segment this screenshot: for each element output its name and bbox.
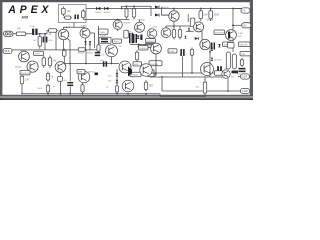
wire Q1 down xyxy=(63,40,65,50)
label box VAS upper xyxy=(146,39,156,43)
emitter resistor box xyxy=(228,43,235,49)
svg-text:1N4007: 1N4007 xyxy=(87,52,94,54)
resistor R12 xyxy=(178,28,181,40)
border frame bottom line xyxy=(0,95,253,96)
wire Q2 load drop xyxy=(94,33,96,48)
svg-text:47u: 47u xyxy=(64,80,67,82)
transistor Q1 diff pair xyxy=(58,29,68,39)
wire long feedback run y73 xyxy=(150,72,216,74)
node x70 bus xyxy=(69,63,71,65)
transistor Q9 xyxy=(200,39,210,49)
diode D8 xyxy=(137,44,139,47)
resistor R13 xyxy=(97,43,100,53)
terminal signal input xyxy=(4,31,13,36)
node Q18-fb xyxy=(155,72,157,74)
tall resistor body xyxy=(226,52,230,69)
wire Q4 emitter drop xyxy=(173,21,175,26)
svg-text:47u: 47u xyxy=(102,55,105,57)
resistor R7 xyxy=(15,27,28,35)
svg-text:10R: 10R xyxy=(203,14,208,17)
resistor R11 xyxy=(172,28,175,40)
resistor R25 xyxy=(190,48,193,58)
wire mid bus left xyxy=(130,44,160,46)
zener ZD1 xyxy=(116,73,118,76)
capacitor C7 xyxy=(95,52,101,56)
svg-text:10R: 10R xyxy=(149,85,154,88)
transistor Q6b xyxy=(147,29,157,39)
wire +V top rail xyxy=(86,8,242,10)
wire input signal xyxy=(13,33,33,35)
trimpot VR1 xyxy=(190,18,195,27)
capacitor C9 xyxy=(103,61,107,67)
svg-text:220R: 220R xyxy=(169,51,175,53)
wire gnd drop xyxy=(161,77,163,91)
node x86 bus xyxy=(85,63,87,65)
node R22-rail xyxy=(47,93,49,95)
svg-text:100u: 100u xyxy=(127,31,131,33)
transistor Q17 driver xyxy=(140,64,152,76)
resistor R19 xyxy=(145,73,157,76)
svg-text:1N4148: 1N4148 xyxy=(78,52,85,54)
label box above R24 xyxy=(139,46,149,50)
diode D6 xyxy=(89,41,91,44)
svg-text:MJE340: MJE340 xyxy=(150,64,159,66)
terminal +V supply xyxy=(241,8,250,13)
node C3 tap xyxy=(44,33,46,35)
wire Q8 drop xyxy=(111,57,113,64)
svg-text:AX6: AX6 xyxy=(21,15,29,19)
svg-text:OUT: OUT xyxy=(242,75,248,79)
wire R12 stub xyxy=(179,26,181,28)
resistor R2 xyxy=(63,16,72,19)
transistor Q12 xyxy=(27,61,38,72)
wire long output run y77 xyxy=(150,76,222,78)
wire Q4 collector xyxy=(173,9,175,11)
node zener-rail xyxy=(116,93,118,95)
diode D3 xyxy=(155,6,159,9)
wire R25 drop xyxy=(191,57,193,73)
node loop-R4 xyxy=(126,5,128,7)
svg-text:MJE350: MJE350 xyxy=(124,22,131,24)
wire D6 to bus xyxy=(89,44,91,50)
node Q1 gnd xyxy=(63,49,65,51)
bias network box xyxy=(59,5,87,23)
transistor Q6 xyxy=(135,22,145,32)
node input junction xyxy=(39,33,41,35)
svg-text:2SB649: 2SB649 xyxy=(138,20,145,22)
zener marks xyxy=(95,73,99,76)
label box Q14 value xyxy=(133,62,142,66)
node gnd tap xyxy=(161,76,163,78)
wire fb drop xyxy=(55,32,57,50)
APEX logo xyxy=(7,4,49,16)
capacitor C12 xyxy=(217,66,222,74)
node rail-Q4 xyxy=(173,8,175,10)
wire Q5 to Q9 xyxy=(201,31,203,39)
capacitor C4 xyxy=(129,33,133,44)
wire mid horizontal bus xyxy=(64,63,119,65)
diode D2 xyxy=(105,7,109,10)
svg-text:MJE340: MJE340 xyxy=(147,41,156,43)
transistor Q2 diff pair xyxy=(80,28,90,38)
resistor R18 xyxy=(144,80,153,92)
label box right upper xyxy=(240,52,251,56)
svg-text:BD139: BD139 xyxy=(89,72,95,74)
resistor R24 xyxy=(135,50,138,62)
label box Q9 xyxy=(214,30,225,35)
svg-text:100u: 100u xyxy=(134,28,138,30)
wire bias loop xyxy=(122,6,152,16)
wire Q2 down xyxy=(85,38,87,41)
dark bar right of D7 xyxy=(140,35,142,41)
capacitor C6 bypass xyxy=(101,38,108,42)
svg-text:MJE15: MJE15 xyxy=(131,75,139,77)
wire Q6 up xyxy=(139,20,141,23)
svg-text:+V: +V xyxy=(242,9,246,13)
label box bottom left xyxy=(20,71,30,75)
terminal feedback xyxy=(3,48,12,53)
diode D12 xyxy=(211,58,213,61)
resistor R17 xyxy=(116,84,119,94)
wire Q9 col xyxy=(209,45,211,53)
resistor R4 xyxy=(125,6,128,19)
svg-text:0R5 5W: 0R5 5W xyxy=(240,45,249,47)
svg-text:GND: GND xyxy=(242,89,248,93)
svg-text:1N4148: 1N4148 xyxy=(162,15,170,17)
transistor Q5 xyxy=(194,22,204,32)
wire Q18 drop xyxy=(155,54,157,73)
terminal GND xyxy=(241,88,250,93)
diode D15 xyxy=(195,37,199,40)
wire Q1 emitter link xyxy=(67,38,70,40)
svg-text:100R: 100R xyxy=(213,14,219,17)
svg-text:10R: 10R xyxy=(241,54,245,56)
terminal right mid xyxy=(242,23,251,28)
resistor R1 xyxy=(62,7,72,17)
wire bottom rail right part xyxy=(160,95,206,97)
wire top rail to V+ terminal xyxy=(233,8,242,10)
node rail-Q3 xyxy=(117,19,119,21)
node out-gnd junction xyxy=(227,90,229,92)
node out bus xyxy=(209,72,211,74)
transistor Q20 small xyxy=(222,70,230,78)
wire Q7 top xyxy=(165,26,167,28)
resistor R16 xyxy=(63,49,66,59)
capacitor C8 xyxy=(211,43,215,50)
wire rail drop to output stage xyxy=(232,9,234,31)
resistor R5 xyxy=(199,9,208,22)
wire C2 to junction xyxy=(38,33,47,35)
resistor R10 xyxy=(47,29,58,37)
node D5 bus xyxy=(85,49,87,51)
wire R11 stub xyxy=(173,26,175,28)
node output column top xyxy=(209,51,211,53)
svg-text:560R: 560R xyxy=(38,88,43,90)
wire R16 down xyxy=(63,58,65,64)
tall resistor body 2 xyxy=(232,54,236,69)
pill below Q13 xyxy=(58,77,63,82)
svg-text:1N4007: 1N4007 xyxy=(95,12,103,14)
node rail-drop xyxy=(232,8,234,10)
transistor Q15 xyxy=(122,80,134,92)
svg-text:100n: 100n xyxy=(114,41,120,43)
diode D1 xyxy=(97,7,101,10)
resistor R3 xyxy=(81,9,85,20)
node rail left corner xyxy=(21,93,22,94)
transistor Q14 xyxy=(119,61,131,73)
capacitor C1 xyxy=(74,15,78,19)
wire C11 drop xyxy=(182,56,184,77)
label box Q11 xyxy=(34,51,44,55)
cap C6 outline xyxy=(99,37,111,43)
wire C3 bottom xyxy=(44,42,46,50)
wire out drop xyxy=(227,79,229,92)
speaker-ish dark mark xyxy=(128,67,132,77)
resistor R20 xyxy=(20,74,29,86)
transistor Q10 power xyxy=(226,30,237,41)
wire tail xyxy=(73,23,75,28)
svg-text:BD139: BD139 xyxy=(207,20,214,22)
resistor R22 xyxy=(46,84,49,94)
label box mid upper xyxy=(99,29,109,34)
wire rail drop to Q3 xyxy=(117,19,119,22)
transistor Q19 power xyxy=(201,63,214,76)
diode D11 xyxy=(211,48,213,51)
capacitor C13 xyxy=(239,68,246,72)
diode D5 xyxy=(84,41,86,44)
wire VAS loop xyxy=(117,29,119,31)
svg-text:100R: 100R xyxy=(100,32,106,34)
wire x70 drop xyxy=(69,41,71,64)
border frame bottom darkest edge xyxy=(0,98,253,101)
svg-text:2.2uF: 2.2uF xyxy=(30,26,36,28)
svg-text:1N4148: 1N4148 xyxy=(162,7,170,9)
wire x70 down lower xyxy=(69,64,71,82)
wire ground run to GND terminal xyxy=(162,90,241,92)
capacitor C5 xyxy=(133,34,137,43)
capacitor C11 xyxy=(180,49,184,56)
label box VAS lower xyxy=(145,44,155,48)
border frame top band xyxy=(0,0,253,2)
capacitor C10 xyxy=(67,82,73,86)
transistor Q11 xyxy=(19,51,30,62)
wire x62 down xyxy=(60,72,62,93)
transistor Q7 xyxy=(161,28,171,38)
resistor R23 xyxy=(81,83,84,94)
resistor R26 xyxy=(240,58,243,67)
svg-text:1k: 1k xyxy=(53,86,55,88)
svg-text:2N5401: 2N5401 xyxy=(15,67,22,69)
capacitor C2 input xyxy=(32,29,38,35)
label box inductor xyxy=(215,71,223,75)
node R23-rail xyxy=(82,93,84,95)
diode D7 xyxy=(137,35,139,38)
transistor Q13 xyxy=(55,62,66,73)
wire Q5 left xyxy=(186,30,194,32)
resistor R14 xyxy=(42,56,45,69)
fuse dark bar xyxy=(232,71,239,74)
svg-text:0.5R: 0.5R xyxy=(238,33,243,35)
node rail loop xyxy=(121,8,123,10)
wire C10 down xyxy=(69,86,71,94)
wire zener stack xyxy=(116,69,118,84)
label box right of Q18 xyxy=(168,49,177,53)
label box Q15 value xyxy=(130,72,141,76)
wire to OUT2 terminal xyxy=(233,24,242,26)
wire jog to R10 xyxy=(46,31,48,34)
wire bottom rail jog xyxy=(159,94,161,97)
svg-text:MJE: MJE xyxy=(134,64,139,66)
border frame bottom dark edge xyxy=(0,98,253,99)
svg-text:270R: 270R xyxy=(35,53,41,55)
svg-text:E: E xyxy=(31,4,39,16)
wire x86 drop xyxy=(85,50,87,64)
wire Q1-Q2 emitters xyxy=(64,27,86,29)
svg-text:2SC4: 2SC4 xyxy=(153,26,158,28)
wire bottom -V rail xyxy=(22,93,160,95)
node column-out2 xyxy=(232,24,234,26)
wire R13 feed xyxy=(98,26,100,43)
resistor R21 xyxy=(46,72,54,83)
wire D5 to bus xyxy=(85,44,87,50)
Q10 dark detail xyxy=(228,32,230,39)
transistor Q18 driver xyxy=(151,43,162,54)
node R18-rail xyxy=(145,93,147,95)
node rail-R6 xyxy=(210,8,212,10)
wire Q10 to out xyxy=(232,48,234,52)
transistor Q16 xyxy=(78,71,90,83)
diode D4 xyxy=(155,14,159,17)
wire Q2 base link xyxy=(90,32,95,34)
resistor R27 xyxy=(203,79,206,96)
svg-text:2N5401: 2N5401 xyxy=(20,50,27,52)
zener ZD2 xyxy=(116,80,118,83)
node Q15-rail xyxy=(127,93,129,95)
svg-text:NFB: NFB xyxy=(4,49,9,53)
label box mid xyxy=(78,48,85,52)
border frame left band xyxy=(0,0,2,100)
node Q8 bus xyxy=(111,63,113,65)
terminal OUT xyxy=(241,74,250,79)
wire trimpot feed xyxy=(187,14,189,22)
wire Q10 down xyxy=(232,40,234,42)
label box 0R5 xyxy=(239,42,251,47)
border frame bottom band xyxy=(0,96,253,98)
svg-text:O2: O2 xyxy=(243,23,247,27)
resistor R4b xyxy=(132,6,135,19)
diode D10 xyxy=(188,28,190,31)
node Q4-bus xyxy=(173,25,175,27)
node R16 bus xyxy=(63,63,65,65)
wire R27 top xyxy=(204,77,206,80)
capacitor C3 xyxy=(43,37,48,43)
wire R11 R12 top bus xyxy=(166,25,190,27)
node x62-rail xyxy=(60,93,62,95)
wire output column xyxy=(209,52,211,77)
wire Q17 right xyxy=(152,70,154,77)
label box bus xyxy=(77,70,85,74)
border frame right band xyxy=(250,0,253,100)
svg-text:MJ15003: MJ15003 xyxy=(215,33,225,35)
svg-text:MJ2955: MJ2955 xyxy=(215,59,223,61)
svg-text:X: X xyxy=(40,4,49,16)
node loop-R4b xyxy=(133,5,135,7)
node R25-fb xyxy=(191,72,193,74)
resistor R15 xyxy=(48,56,57,69)
wire D3-D4 join xyxy=(161,7,163,15)
wire D stack to Q4 xyxy=(162,14,169,16)
wire out link xyxy=(238,76,241,78)
wire R20 down xyxy=(21,86,23,94)
diode D14 xyxy=(218,44,220,47)
label box driver xyxy=(149,61,162,66)
diode D9 xyxy=(185,36,187,39)
transistor Q8 xyxy=(106,45,118,57)
svg-text:1N4007: 1N4007 xyxy=(104,12,112,14)
label box right mid xyxy=(223,42,233,47)
svg-text:68R: 68R xyxy=(78,72,82,74)
svg-text:P: P xyxy=(20,4,28,16)
wire front-end ground bus xyxy=(12,49,99,51)
label box C6 value xyxy=(113,39,122,43)
transistor Q4 xyxy=(169,11,179,21)
resistor R8 xyxy=(38,34,41,49)
svg-text:47uF: 47uF xyxy=(48,40,53,42)
svg-text:2SC: 2SC xyxy=(119,46,123,48)
wire second rail xyxy=(83,19,129,21)
svg-text:MJE340: MJE340 xyxy=(140,48,149,50)
resistor R6 xyxy=(209,9,219,22)
wire C3 top xyxy=(44,34,46,37)
pill left of caps xyxy=(124,30,129,38)
svg-text:2N5401: 2N5401 xyxy=(21,73,29,75)
node rail-R5 xyxy=(200,8,202,10)
svg-text:100uF: 100uF xyxy=(100,35,106,37)
transistor Q3 xyxy=(113,20,122,29)
svg-text:A: A xyxy=(7,4,16,16)
node x70-rail xyxy=(69,93,71,95)
